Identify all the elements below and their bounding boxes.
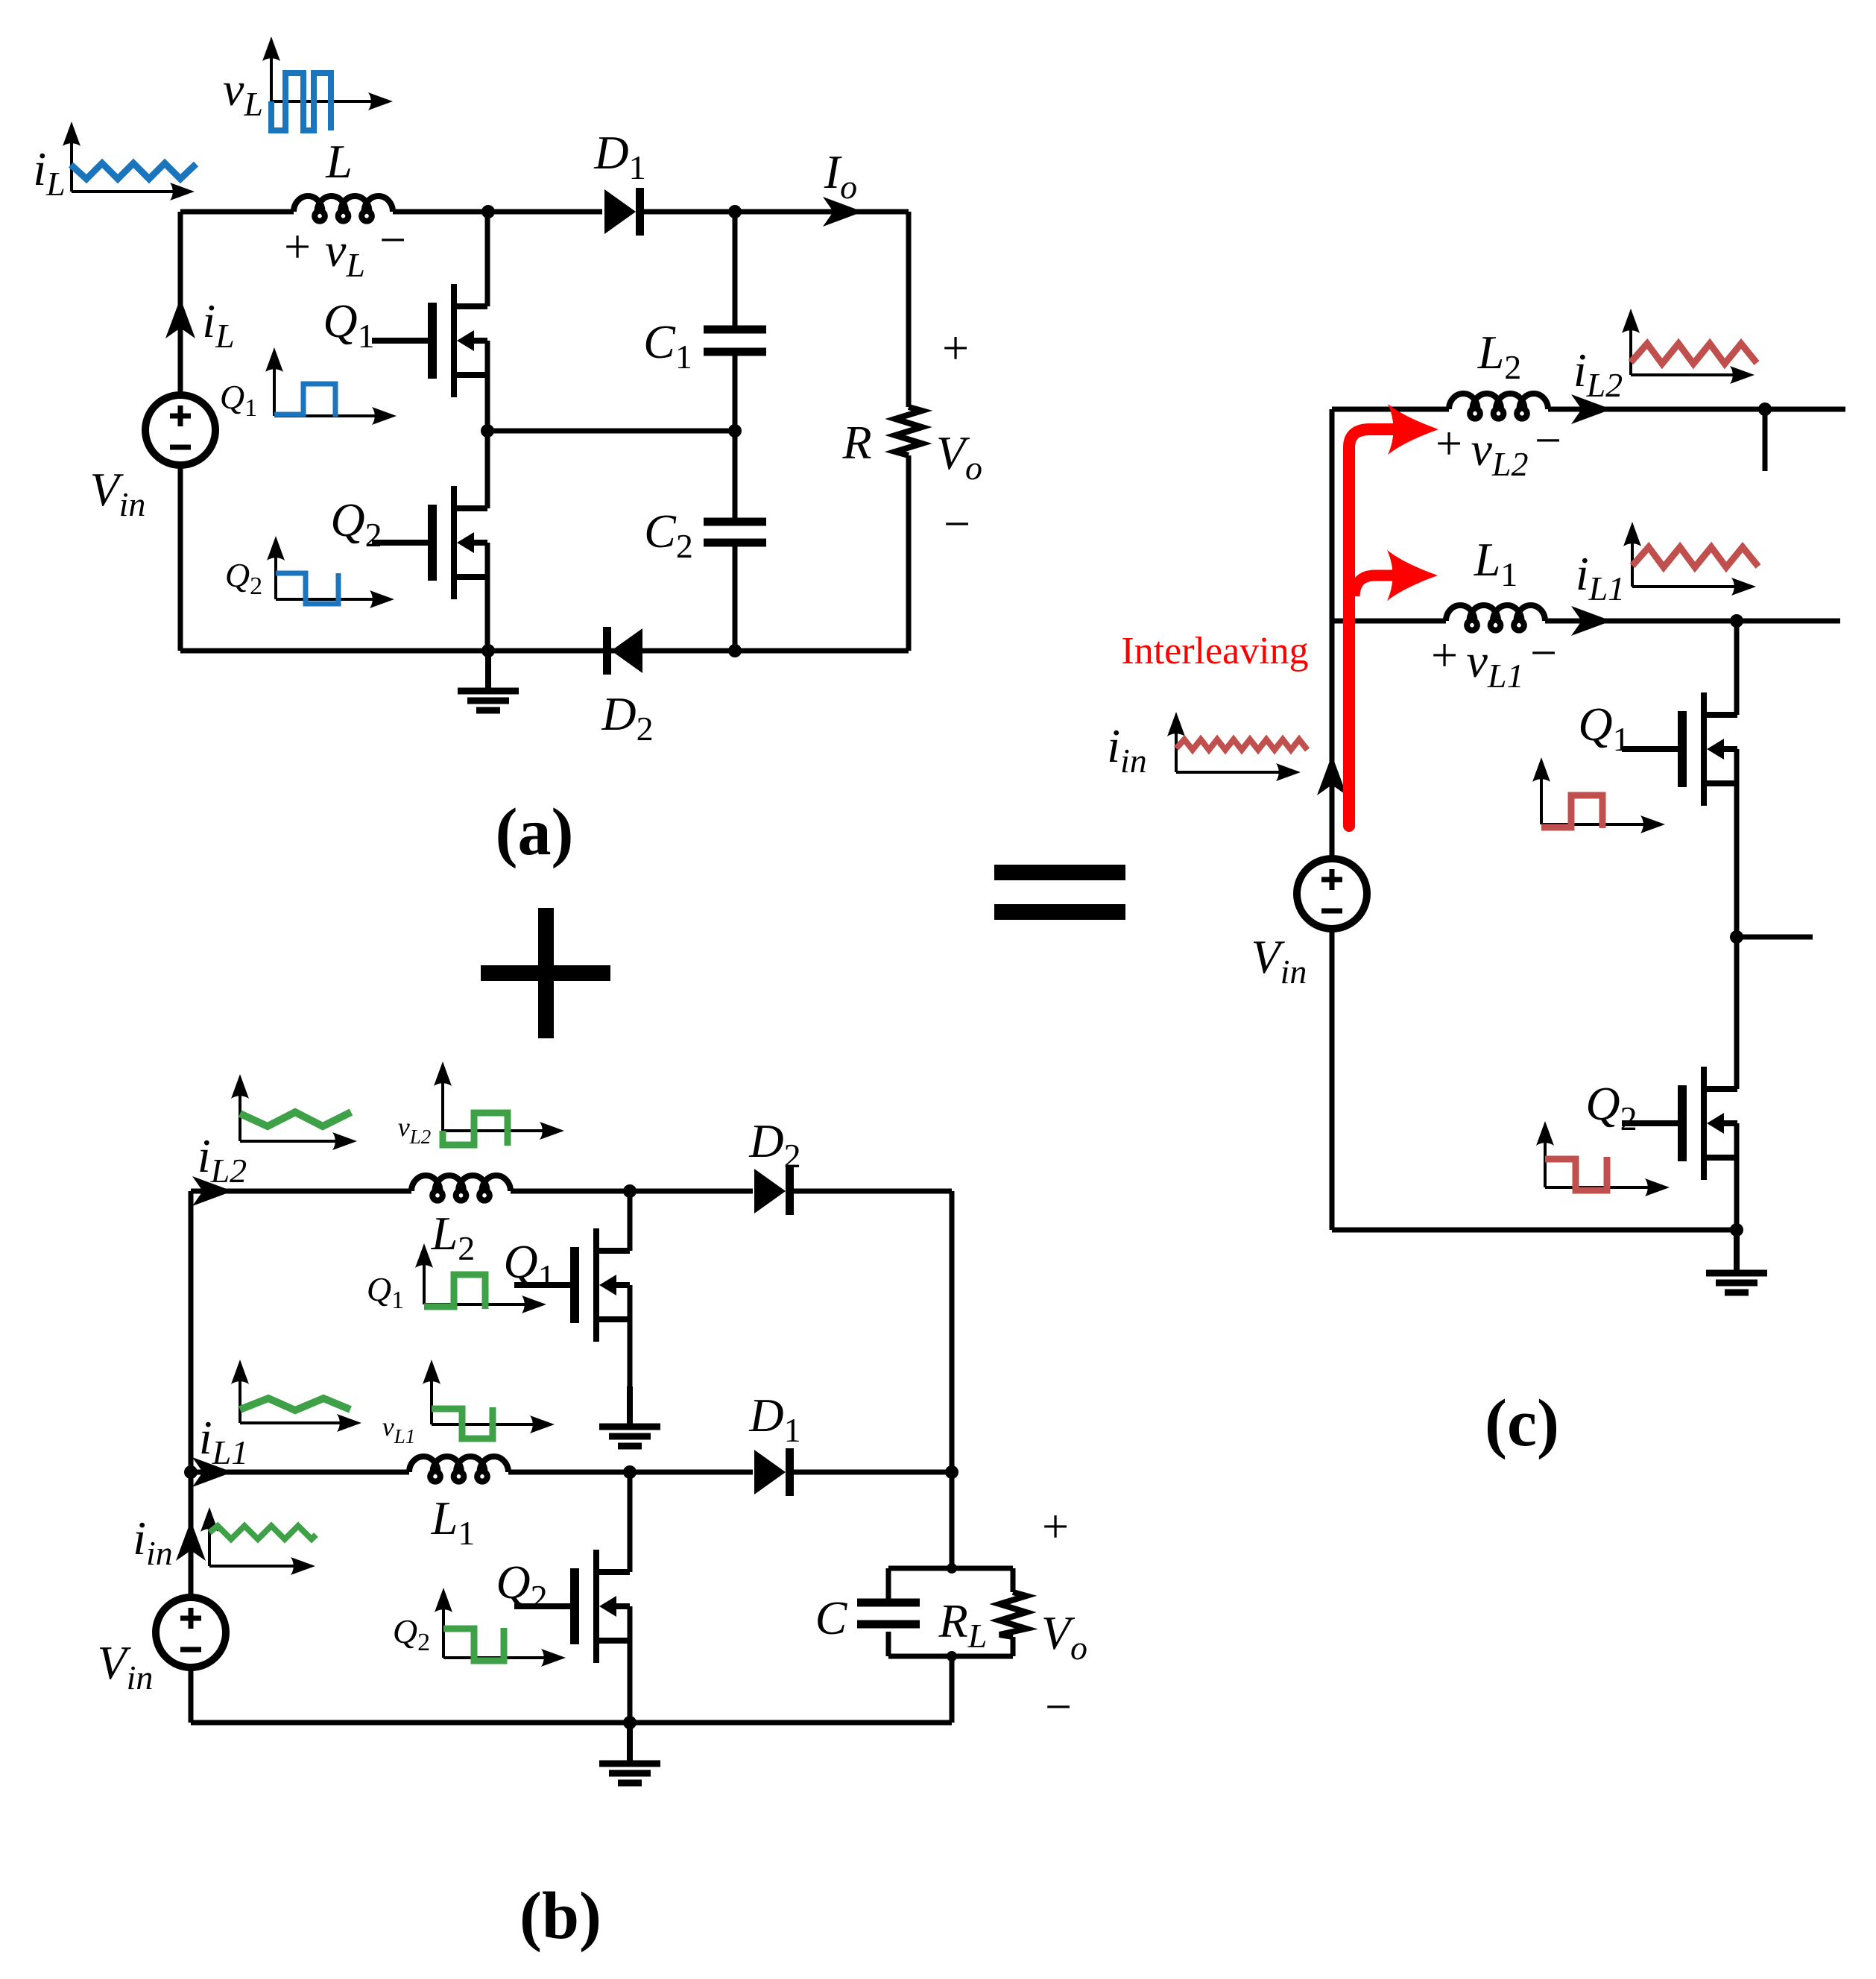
node dot left of D1 (a) [481,205,495,218]
waveform graph iin (c) axes [1175,727,1178,772]
waveform Q1 pulse (b) [424,1275,485,1309]
current arrow iin (c) [1317,755,1347,795]
node dot mid branch (c) [1730,930,1743,944]
transistor Q1 (c) [1678,711,1687,787]
node dot L2/Q1 (b) [623,1184,637,1198]
waveform graph iL1 (b) axes [239,1374,241,1423]
transistor Q2 (b) [570,1568,579,1644]
diode D1 (a) [604,189,636,234]
ground (c) [1734,1233,1740,1273]
node dot loop top (b) [947,1563,957,1574]
diode D1 (b) [754,1450,786,1494]
svg-text:Interleaving: Interleaving [1121,630,1308,672]
transistor Q1 (a) [428,303,437,379]
wire: circuit (c) L2 row [1332,407,1845,412]
node dot L2 row (c) [1758,403,1772,416]
equals sign before (c) [994,865,1125,880]
transistor Q1 (b) [570,1247,579,1323]
waveform iL1 (b) [240,1398,350,1410]
waveform graph Q1 pulse (c) axes [1540,772,1543,824]
resistor RL (b) [999,1592,1026,1637]
waveform iin zigzag (b) [209,1526,316,1539]
waveform iL triangle (a) [71,163,196,179]
waveform graph vL2 (b) axes [441,1076,444,1131]
waveform graph Q1 pulse (a) axes [273,362,276,416]
wire: mid branch (c) [1737,935,1813,940]
wire: middle wire between capacitors (a) [487,429,735,434]
node dot bottom-left (a) [481,644,495,657]
wire: stub below L2 node (c) [1763,409,1768,471]
node dot right of D1 (a) [728,205,742,218]
inductor L2 (b) [411,1175,511,1201]
waveform vL1 (b) [432,1407,493,1439]
wire: D1 to output corner (a) [644,209,909,215]
svg-text:−: − [1045,1680,1072,1733]
diode D2 (a) [603,627,611,675]
waveform graph iL (a) axes [70,136,73,192]
waveform Q1 pulse (c) [1541,795,1602,828]
wire: circuit (b) left rail [189,1191,194,1723]
waveform graph vL1 (b) axes [430,1374,433,1424]
inductor L1 (b) [409,1456,508,1482]
svg-text:L: L [325,135,353,188]
waveform Q2 pulse (a) [276,573,338,604]
inductor L (a) [294,196,393,221]
ground under Q1 (b) [627,1386,633,1427]
waveform graph Q1 pulse (b) axes [423,1258,426,1304]
wire: Q1 drain/source verticals (b) [628,1191,633,1386]
wire: circuit (c) bottom wire [1332,1228,1737,1233]
node dot bottom (c) [1730,1223,1743,1237]
node dot L1/Q2 (b) [623,1465,637,1479]
svg-text:(a): (a) [496,795,574,869]
wire: circuit (a) left rail [178,212,183,651]
node dot L1/right rail (b) [945,1465,958,1479]
current arrow Io (a) [823,197,863,227]
capacitor C1 (a) [704,326,766,334]
svg-text:+: + [284,220,311,273]
waveform graph Q2 pulse (b) axes [442,1603,445,1658]
plus sign between (a) and (b) [481,965,610,981]
node dot loop bottom (b) [947,1651,957,1661]
wire: C1 branch (a) [733,212,738,431]
ground (a) [485,651,491,691]
waveform iL2 zigzag (c) [1631,344,1757,364]
svg-text:−: − [379,213,406,266]
capacitor C2 (a) [704,518,766,526]
svg-text:C: C [815,1591,848,1644]
waveform iL1 zigzag (c) [1632,547,1758,567]
waveform graph iin (b) axes [208,1522,211,1566]
wire: circuit (a) right rail [906,212,912,651]
node dot middle-right (a) [728,424,742,438]
svg-text:−: − [1535,414,1561,467]
node dot bottom-right (a) [728,644,742,657]
red interleaving branch arrow [1354,575,1395,596]
diode D2 (b) [754,1169,786,1213]
waveform graph Q2 pulse (a) axes [274,551,277,599]
ground bottom (b) [627,1723,633,1764]
current arrow iL on left rail (a) [165,298,195,338]
node dot middle-left (a) [481,424,494,438]
wire: circuit (a) mid vertical rail segments [485,212,490,651]
wire: circuit (c) right rail segments [1734,621,1740,1230]
transistor Q2 (c) [1678,1085,1687,1161]
wire: C2 branch (a) [733,431,738,651]
current arrow on L2 row (c) [1571,394,1611,424]
inductor L1 (c) [1446,605,1545,631]
svg-text:(c): (c) [1485,1386,1559,1460]
capacitor C (b) [857,1599,920,1607]
svg-text:+: + [1436,417,1462,470]
waveform Q2 pulse (c) [1545,1157,1607,1190]
wire: circuit (b) bottom wire [191,1720,952,1726]
svg-text:(b): (b) [519,1879,601,1953]
svg-text:−: − [944,497,970,550]
transistor Q2 (a) [428,505,437,581]
waveform Q1 pulse (a) [274,384,335,417]
waveform graph vL (a) axes [270,51,273,101]
current arrow on L2 row (b) [192,1176,233,1206]
wire: circuit (b) top L2 row [191,1189,952,1194]
waveform vL square (a) [271,73,331,130]
svg-text:+: + [1431,628,1458,681]
source Vin (c) [1297,859,1367,929]
waveform graph iL2 (b) axes [239,1089,241,1141]
waveform Q2 pulse (b) [443,1628,504,1661]
wire: circuit (c) left rail [1330,409,1335,1230]
resistor R (a) [895,407,922,455]
node dot L1 row (c) [1730,614,1743,628]
wire: circuit (c) L1 row [1332,619,1840,624]
node dot bottom (b) [623,1716,637,1729]
current arrow on L1 row (c) [1571,606,1611,636]
source Vin (a) [145,395,215,465]
wire: circuit (b) L1 row [191,1470,952,1475]
current arrow iin (b) [176,1521,206,1561]
source Vin (b) [156,1597,226,1667]
svg-text:+: + [1042,1500,1069,1553]
wire: Q2 drain/source verticals (b) [628,1472,633,1723]
waveform graph iL1 (c) axes [1631,537,1634,587]
waveform vL2 (b) [443,1113,508,1146]
svg-text:R: R [841,416,871,469]
waveform iin zigzag (c) [1176,739,1307,750]
inductor L2 (c) [1449,394,1548,419]
wire: circuit (a) bottom wire [180,648,909,654]
svg-text:+: + [942,321,969,374]
red interleaving trunk arrow [1349,429,1395,826]
waveform iL2 (b) [240,1112,351,1126]
wire: circuit (b) output loop [888,1568,1013,1723]
wire: circuit (a) top wire with inductor gap [180,209,602,215]
waveform graph Q2 pulse (c) axes [1544,1136,1547,1187]
current arrow on L1 row (b) [192,1457,233,1487]
node dot left rail/L1 (b) [184,1465,198,1479]
waveform graph iL2 (c) axes [1629,323,1632,375]
wire: circuit (b) right rail [950,1191,955,1568]
svg-text:−: − [1530,626,1557,679]
